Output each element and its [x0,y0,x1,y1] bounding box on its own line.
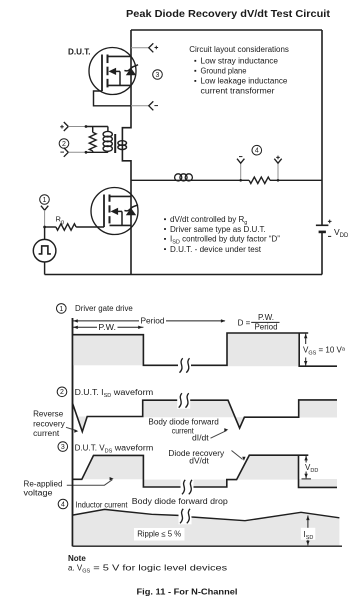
battery VDD [316,224,329,226]
node 3 circled number (waveform) [58,442,68,452]
inductor transformer secondary winding [118,141,127,146]
svg-text:Rg: Rg [56,215,64,226]
waveform row3 break [181,479,194,496]
wire pulse generator to bottom rail [44,262,46,275]
svg-text:4: 4 [61,501,65,508]
waveform axis vertical line (over fills) [72,318,74,546]
node 3 circled number [153,70,163,80]
svg-text:Ground plane: Ground plane [201,66,248,75]
svg-text:3: 3 [156,72,160,79]
waveform row1 pulse fill [73,335,144,366]
node 1 input terminal [41,206,48,211]
svg-text:Peak Diode Recovery dV/dt Test: Peak Diode Recovery dV/dt Test Circuit [126,9,331,20]
node 4 minus terminal [240,164,242,181]
waveform row4 inductor current trace [73,509,340,520]
svg-text:Period: Period [141,317,165,326]
svg-text:P.W.: P.W. [98,323,116,332]
wire Rg to driver gate [76,226,104,228]
svg-text:D.U.T. ISD waveform: D.U.T. ISD waveform [75,388,154,399]
node 1 circled number (waveform) [57,304,67,314]
label ripple [134,528,185,541]
svg-text:VGS = 10 Va: VGS = 10 Va [303,346,346,357]
waveform row3 fill VDS pulse 1 [82,455,144,479]
node 4 circled number [252,145,262,155]
waveform row4 baseline [73,545,343,547]
waveform row4 break [179,508,192,525]
dimension VGS = 10 V [305,334,307,344]
waveform row3 fill body diode drop band [143,480,226,487]
resistor Rg [45,226,56,228]
node 4 plus terminal [277,164,279,181]
svg-text:1: 1 [43,197,47,204]
node 3 minus terminal [131,105,149,107]
svg-text:4: 4 [255,148,259,155]
svg-text:2: 2 [62,141,66,148]
svg-text:Driver same type as D.U.T.: Driver same type as D.U.T. [170,225,266,234]
waveform axis vertical line [72,318,74,546]
wire transformer primary bottom rail [86,151,108,153]
dimension ISD [307,516,309,546]
wire right rail upper (to VDD +) [321,30,323,225]
node 1 circled number [40,195,50,205]
wire driver drain to right rail [131,179,249,181]
wire pulse generator to node [44,227,46,239]
svg-text:current: current [172,426,195,435]
svg-text:Note: Note [68,554,86,563]
waveform row2 break [177,392,190,409]
resistor current sense [249,177,270,183]
wire bottom rail [45,274,322,276]
wire right rail lower (from VDD -) [321,232,323,275]
inductor L (series) [175,174,182,181]
svg-text:dI/dt: dI/dt [192,433,210,442]
node 2 plus input terminal [60,125,64,129]
waveform row4 fill [73,509,340,546]
svg-text:VDD: VDD [305,463,318,474]
inductor transformer primary winding [107,127,109,133]
svg-text:Driver gate drive: Driver gate drive [75,304,133,313]
pulse generator [33,239,56,262]
junction node at Rg [43,226,46,229]
dimension period [73,320,225,322]
svg-text:2: 2 [60,389,64,396]
svg-text:current transformer: current transformer [201,86,275,95]
note circuit bullets [164,218,166,220]
dimension P.W. [73,326,144,328]
svg-text:Low leakage inductance: Low leakage inductance [201,76,288,85]
svg-text:Inductor current: Inductor current [76,501,129,510]
node 2 circled number (waveform) [57,387,67,397]
svg-text:Low stray inductance: Low stray inductance [201,56,279,65]
dimension VDD (waveform) [305,456,307,463]
svg-text:Body diode forward: Body diode forward [148,418,218,427]
svg-text:Body diode forward drop: Body diode forward drop [132,497,229,506]
svg-text:Period: Period [255,323,278,332]
node 3 plus terminal [131,47,149,49]
svg-text:D.U.T. - device under test: D.U.T. - device under test [170,245,262,254]
transistor driver (N-MOSFET with body diode) [91,188,138,235]
svg-text:D.U.T. VDS waveform: D.U.T. VDS waveform [75,444,154,455]
svg-text:VDD: VDD [334,227,349,239]
waveform row3 fill VDS pulse 2 [237,455,299,479]
waveform row2 fill reverse recovery dip [77,417,87,432]
node 2 minus input terminal [60,151,64,153]
svg-text:D =: D = [238,318,251,327]
waveform row2 fill body diode conduction [143,400,245,428]
svg-text:3: 3 [61,444,65,451]
waveform row2 ISD trace [73,400,338,432]
resistor (transformer burden) [92,127,94,133]
svg-text:Circuit layout considerations: Circuit layout considerations [189,45,289,54]
waveform row1 break [178,357,191,374]
svg-text:1: 1 [59,306,63,313]
svg-text:dV/dt: dV/dt [189,457,209,466]
svg-text:Re-applied: Re-applied [24,480,63,489]
wire transformer primary top rail [86,126,108,128]
svg-text:Ripple ≤ 5 %: Ripple ≤ 5 % [137,530,181,539]
waveform row1 gate pulse [73,333,338,366]
svg-text:P.W.: P.W. [258,313,274,322]
node 4 circled number (waveform) [58,499,68,509]
svg-text:D.U.T.: D.U.T. [68,48,91,57]
wire top rail [131,29,322,31]
node 2 circled number [59,139,69,149]
transistor D.U.T. (N-MOSFET with body diode) [89,48,138,95]
wire main vertical line (DUT drain to driver source) [122,30,131,275]
waveform row3 VDS trace [73,455,337,487]
svg-text:a. VGS = 5 V for logic level d: a. VGS = 5 V for logic level devices [68,563,227,574]
transformer core bar [114,134,116,153]
wire DUT gate tied to source [94,91,132,106]
svg-text:current: current [33,429,60,438]
svg-text:Reverse: Reverse [33,410,64,419]
svg-text:Fig. 11 - For N-Channel: Fig. 11 - For N-Channel [137,587,238,597]
svg-text:voltage: voltage [24,489,54,498]
svg-text:recovery: recovery [33,420,65,429]
